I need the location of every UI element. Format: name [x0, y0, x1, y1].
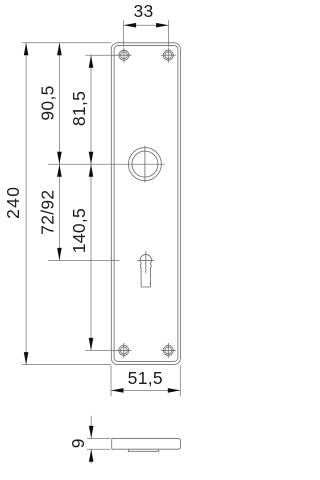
arrow 9 bottom (pointing up)	[89, 449, 94, 462]
svg-text:140,5: 140,5	[69, 208, 89, 253]
screw hole top-left	[117, 48, 132, 63]
extension line side view bottom	[87, 448, 111, 450]
dimension line 90,5 / 72-92	[58, 43, 60, 261]
extension line keyhole center	[48, 259, 119, 261]
screw hole bottom-left	[116, 343, 131, 358]
screw hole top-right	[161, 48, 176, 63]
arrow 90,5 bottom	[57, 152, 62, 165]
svg-text:72/92: 72/92	[38, 190, 58, 235]
arrow 72/92 top	[57, 164, 62, 177]
side view plate profile	[112, 438, 181, 449]
dimension line 9 lower segment	[90, 449, 92, 463]
arrow 240 top	[24, 43, 29, 56]
arrow 81,5 top	[89, 55, 94, 67]
arrow 9 top (pointing down)	[89, 426, 94, 439]
extension line top screw center	[86, 54, 132, 56]
arrow 33 left	[124, 23, 137, 28]
extension line plate top	[22, 42, 111, 44]
arrow 51,5 right	[168, 388, 181, 393]
dimension line 9 upper segment	[90, 416, 92, 439]
svg-text:51,5: 51,5	[128, 368, 163, 388]
dimension line 81,5 / 140,5	[90, 55, 92, 350]
handle hole inner circle	[132, 151, 158, 177]
extension line 33 left	[123, 20, 125, 47]
svg-text:240: 240	[3, 186, 23, 219]
plate inner edge line	[114, 46, 178, 362]
extension line plate bottom	[22, 364, 111, 366]
extension line side view top	[87, 437, 111, 439]
dimension line 33	[124, 24, 169, 26]
handle hole outer circle	[128, 148, 161, 181]
extension line handle hole center	[48, 163, 165, 165]
arrow 51,5 left	[111, 388, 124, 393]
keyhole horizontal centerline	[138, 259, 155, 261]
svg-text:81,5: 81,5	[69, 91, 89, 126]
svg-text:9: 9	[68, 438, 88, 448]
arrow 90,5 top	[57, 43, 62, 56]
svg-text:90,5: 90,5	[38, 85, 58, 120]
keyhole outline	[140, 254, 151, 287]
arrow 81,5 bottom	[89, 152, 94, 165]
extension line 51,5 right	[179, 365, 181, 396]
side view back boss step	[128, 449, 159, 451]
dimension line 240	[25, 43, 27, 365]
arrow 33 right	[156, 23, 169, 28]
plate outer outline	[111, 43, 180, 365]
arrow 140,5 bottom	[89, 338, 94, 351]
screw hole bottom-right	[161, 343, 176, 358]
svg-text:33: 33	[133, 1, 153, 21]
arrow 240 bottom	[24, 352, 29, 365]
arrow 72/92 bottom	[57, 248, 62, 261]
dimension line 51,5	[111, 389, 180, 391]
extension line 51,5 left	[110, 365, 112, 396]
extension line bottom screw center	[86, 349, 132, 351]
arrow 140,5 top	[89, 164, 94, 177]
extension line 33 right	[168, 20, 170, 47]
keyhole vertical centerline	[145, 251, 147, 273]
handle hole vertical centerline	[144, 146, 146, 183]
